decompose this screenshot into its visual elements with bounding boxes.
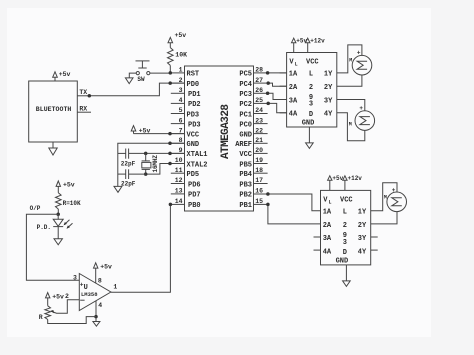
svg-text:+5v: +5v xyxy=(175,32,187,39)
label pin1 xyxy=(113,284,117,291)
wire U3 1Y to motor M1 top xyxy=(337,45,362,73)
IC U3 L293D body xyxy=(287,53,337,128)
wire TX to PD0 xyxy=(89,83,185,96)
svg-text:2Y: 2Y xyxy=(324,84,333,92)
ground (U3) xyxy=(306,127,314,148)
svg-text:R: R xyxy=(39,314,43,321)
svg-text:P.D.: P.D. xyxy=(37,224,51,231)
svg-text:GND: GND xyxy=(336,258,349,266)
ground (SW) xyxy=(125,78,133,84)
svg-text:4Y: 4Y xyxy=(324,111,333,119)
svg-text:2A: 2A xyxy=(323,222,332,230)
svg-text:4Y: 4Y xyxy=(358,249,367,257)
potentiometer R xyxy=(39,306,51,321)
svg-text:PC5: PC5 xyxy=(239,71,252,79)
label pin4 xyxy=(98,302,102,309)
label pin2 xyxy=(65,293,69,300)
junction GND pin8 xyxy=(168,142,172,146)
svg-text:+: + xyxy=(80,282,84,289)
svg-text:24: 24 xyxy=(255,107,263,114)
wire PB2 p16 to U4 1A xyxy=(268,194,321,211)
svg-text:5: 5 xyxy=(179,107,183,114)
junction RST xyxy=(169,71,173,75)
svg-text:M: M xyxy=(349,121,352,127)
power +5v arrow (opamp pin8) xyxy=(94,263,113,283)
wire U4 1Y to motor M3 top xyxy=(371,183,397,211)
power +5v arrow (bluetooth) xyxy=(53,71,71,81)
wire PC5 p28 to U3 1A xyxy=(268,72,287,74)
svg-text:25: 25 xyxy=(255,97,263,104)
svg-text:10K: 10K xyxy=(175,52,187,59)
svg-text:PC4: PC4 xyxy=(239,81,252,89)
svg-text:GND: GND xyxy=(302,120,315,128)
svg-text:3A: 3A xyxy=(289,97,298,105)
wire U3 2Y to motor M1 bottom xyxy=(337,75,362,86)
svg-text:3: 3 xyxy=(309,101,313,109)
svg-text:12: 12 xyxy=(175,177,183,184)
wire GND pin8 xyxy=(118,143,185,186)
ATMEGA left pin names xyxy=(187,71,208,211)
svg-text:PB0: PB0 xyxy=(188,202,201,210)
wire PC2 p25 to U3 4A xyxy=(268,103,287,112)
svg-text:+5v: +5v xyxy=(63,182,75,189)
svg-text:PD6: PD6 xyxy=(188,181,201,189)
svg-text:16: 16 xyxy=(255,188,263,195)
U3 left pin stubs xyxy=(280,73,287,113)
ATMEGA right pin names xyxy=(235,71,252,211)
svg-text:+: + xyxy=(357,50,361,57)
junction PD0 xyxy=(168,81,172,85)
power +5v arrow (U4 VL) xyxy=(328,175,344,190)
svg-text:+5v: +5v xyxy=(332,175,343,182)
junction p27 xyxy=(266,81,270,85)
svg-text:2: 2 xyxy=(343,222,347,230)
svg-text:VCC: VCC xyxy=(187,131,200,139)
wire crystal bottom rail xyxy=(118,173,146,175)
svg-text:+12v: +12v xyxy=(348,175,363,182)
motor M2 xyxy=(349,105,375,130)
junction VCC xyxy=(168,132,172,136)
svg-text:PD3: PD3 xyxy=(188,121,201,129)
svg-text:3: 3 xyxy=(73,275,77,282)
svg-text:XTAL2: XTAL2 xyxy=(187,161,208,169)
power +12v arrow (U3 VCC) xyxy=(306,38,326,53)
wire O/P node to opamp pin3 xyxy=(26,214,79,280)
label pin3 xyxy=(73,275,77,282)
svg-text:11: 11 xyxy=(175,167,183,174)
svg-text:+: + xyxy=(359,105,363,112)
power +5v arrow (U3 VL) xyxy=(292,38,308,53)
svg-text:22pF: 22pF xyxy=(121,160,136,167)
svg-text:TX: TX xyxy=(79,89,87,96)
svg-text:D: D xyxy=(343,249,347,257)
svg-text:O/P: O/P xyxy=(30,205,41,212)
svg-text:ATMEGA328: ATMEGA328 xyxy=(220,104,232,159)
wire pot bottom to ground node xyxy=(48,317,96,324)
svg-text:1A: 1A xyxy=(323,209,332,217)
ATMEGA left pin stubs 1-14 xyxy=(171,73,185,205)
power +5v arrow (RST pullup) xyxy=(168,32,186,47)
svg-text:M: M xyxy=(349,57,352,63)
svg-text:VCC: VCC xyxy=(340,196,353,204)
svg-text:L: L xyxy=(295,61,298,67)
svg-text:PD5: PD5 xyxy=(187,171,200,179)
svg-text:13: 13 xyxy=(175,188,183,195)
svg-text:26: 26 xyxy=(255,87,263,94)
ground (U4) xyxy=(343,265,351,287)
svg-text:2A: 2A xyxy=(289,84,298,92)
svg-text:+: + xyxy=(392,187,396,194)
wire U4 2Y to motor M3 bottom xyxy=(371,212,397,224)
svg-text:PD7: PD7 xyxy=(188,192,201,200)
pin TX stub xyxy=(77,89,91,96)
wire XTAL1 xyxy=(118,152,185,154)
wiper arrowhead xyxy=(50,310,54,313)
svg-text:27: 27 xyxy=(255,77,263,84)
ground (photodiode) xyxy=(54,239,62,245)
power +12v arrow (U4 VCC) xyxy=(343,175,363,190)
svg-text:PD0: PD0 xyxy=(187,81,200,89)
junction TX xyxy=(88,94,92,98)
wire XTAL2 xyxy=(146,164,185,175)
pushbutton SW xyxy=(136,61,150,83)
svg-text:VCC: VCC xyxy=(306,58,319,66)
svg-text:3A: 3A xyxy=(323,235,332,243)
svg-text:+5v: +5v xyxy=(59,71,71,78)
svg-text:PC3: PC3 xyxy=(239,91,252,99)
junction XTAL2 x2 xyxy=(144,162,172,176)
capacitor C1 22pF xyxy=(121,149,136,168)
junction O/P node xyxy=(56,213,60,217)
svg-text:PB3: PB3 xyxy=(239,181,252,189)
svg-text:M: M xyxy=(384,194,387,200)
junction pin4 ground node xyxy=(94,315,98,319)
svg-text:2Y: 2Y xyxy=(358,222,367,230)
IC U2 ATMEGA328 body xyxy=(185,66,254,211)
ATMEGA right pin stubs 28-15 xyxy=(254,73,268,205)
ATMEGA right pin numbers 28-15 xyxy=(255,67,263,206)
junction p16 xyxy=(266,192,270,196)
ground (crystal net) xyxy=(114,186,122,192)
svg-text:14: 14 xyxy=(175,198,183,205)
U4 right stubs 2Y 3Y 4Y xyxy=(371,237,378,250)
wire VCC pin7 xyxy=(134,133,185,135)
svg-text:22: 22 xyxy=(255,127,263,134)
svg-text:PC0: PC0 xyxy=(239,121,252,129)
svg-text:19: 19 xyxy=(255,157,263,164)
svg-text:LM358: LM358 xyxy=(81,291,98,298)
svg-text:1: 1 xyxy=(113,284,117,291)
svg-text:22pF: 22pF xyxy=(121,181,136,188)
photodiode P.D. xyxy=(37,214,64,239)
ground (opamp) xyxy=(93,322,100,327)
wire opamp pin2 to pot wiper xyxy=(52,300,80,314)
module BT1 BLUETOOTH body xyxy=(29,81,78,142)
svg-text:2: 2 xyxy=(309,84,313,92)
junction p28 xyxy=(266,71,270,75)
junction XTAL1 x2 xyxy=(144,152,172,156)
svg-text:BLUETOOTH: BLUETOOTH xyxy=(36,106,72,113)
svg-text:3: 3 xyxy=(343,239,347,247)
svg-text:21: 21 xyxy=(255,137,263,144)
svg-text:PC1: PC1 xyxy=(239,111,252,119)
U4 unconnected stubs 3A 4A xyxy=(314,237,321,250)
label O/P xyxy=(30,205,41,212)
svg-text:17: 17 xyxy=(255,177,263,184)
power +5v arrow (photodiode pullup) xyxy=(56,181,75,193)
svg-text:L: L xyxy=(309,71,313,79)
svg-text:3: 3 xyxy=(179,87,183,94)
label pin8 xyxy=(98,277,102,284)
svg-text:8: 8 xyxy=(98,277,102,284)
svg-text:4: 4 xyxy=(98,302,102,309)
svg-text:RX: RX xyxy=(79,105,87,112)
svg-text:1A: 1A xyxy=(289,71,298,79)
svg-text:PC2: PC2 xyxy=(239,101,252,109)
junction PB0 xyxy=(169,203,173,207)
IC U4 L293D body xyxy=(321,190,371,265)
svg-text:RST: RST xyxy=(187,71,200,79)
wire opamp pin4 to ground xyxy=(95,301,97,322)
svg-text:PB5: PB5 xyxy=(239,161,252,169)
svg-text:3Y: 3Y xyxy=(358,235,367,243)
wire PC4 p27 to U3 2A xyxy=(268,83,287,86)
svg-text:23: 23 xyxy=(255,117,263,124)
svg-text:28: 28 xyxy=(255,67,263,74)
svg-text:SW: SW xyxy=(137,76,145,83)
svg-text:3Y: 3Y xyxy=(324,97,333,105)
power +5v arrow (VCC pin7) xyxy=(131,126,150,135)
svg-text:+12v: +12v xyxy=(310,38,325,45)
wire SW to ground xyxy=(129,73,136,78)
pin RX stub xyxy=(77,105,91,112)
svg-text:20: 20 xyxy=(255,147,263,154)
svg-text:PB4: PB4 xyxy=(239,171,252,179)
wire PB1 p15 to U4 2A xyxy=(268,204,321,224)
svg-text:1Y: 1Y xyxy=(324,71,333,79)
svg-text:L: L xyxy=(329,199,332,205)
svg-text:+5v: +5v xyxy=(100,263,112,270)
photodiode light arrows xyxy=(64,220,73,229)
svg-text:4: 4 xyxy=(179,97,183,104)
svg-text:PD3: PD3 xyxy=(187,111,200,119)
svg-text:4A: 4A xyxy=(289,111,298,119)
junction p26 xyxy=(266,92,270,96)
ATMEGA left pin numbers 1-14 xyxy=(175,67,183,206)
svg-text:AREF: AREF xyxy=(235,141,252,149)
crystal Y1 16MHZ xyxy=(142,153,159,174)
svg-text:GND: GND xyxy=(187,141,200,149)
svg-text:+5v: +5v xyxy=(52,293,64,300)
svg-text:2: 2 xyxy=(65,293,69,300)
svg-text:PB2: PB2 xyxy=(239,192,252,200)
ground (bluetooth) xyxy=(49,142,57,155)
svg-text:PD2: PD2 xyxy=(188,101,201,109)
resistor R 10K pullup xyxy=(168,48,188,73)
power +5v arrow (pot) xyxy=(46,293,65,306)
svg-text:XTAL1: XTAL1 xyxy=(187,151,208,159)
svg-text:1Y: 1Y xyxy=(358,209,367,217)
svg-text:16MHZ: 16MHZ xyxy=(152,155,159,173)
junction p25 xyxy=(266,102,270,106)
capacitor C2 22pF xyxy=(121,169,136,187)
svg-text:18: 18 xyxy=(255,167,263,174)
wire SW to RST node xyxy=(150,72,170,74)
op-amp U1 LM358 body xyxy=(79,274,111,311)
resistor R=10K xyxy=(56,193,82,215)
motor M1 xyxy=(349,50,372,75)
wire U3 4Y to motor M2 bottom xyxy=(337,113,365,141)
junction p15 xyxy=(266,203,270,207)
svg-text:6: 6 xyxy=(179,117,183,124)
wire U3 3Y to motor M2 top xyxy=(337,100,365,111)
svg-text:4A: 4A xyxy=(323,249,332,257)
motor M3 xyxy=(384,187,407,212)
svg-text:15: 15 xyxy=(255,198,263,205)
wire PC3 p26 to U3 3A xyxy=(268,93,287,99)
svg-text:GND: GND xyxy=(239,131,252,139)
svg-text:D: D xyxy=(309,111,313,119)
svg-text:R=10K: R=10K xyxy=(63,200,81,207)
wire opamp output to PB0 xyxy=(111,204,170,292)
svg-text:L: L xyxy=(343,209,347,217)
svg-text:1: 1 xyxy=(179,67,183,74)
svg-text:PB1: PB1 xyxy=(239,202,252,210)
svg-text:PD1: PD1 xyxy=(188,91,201,99)
svg-text:VCC: VCC xyxy=(239,151,252,159)
